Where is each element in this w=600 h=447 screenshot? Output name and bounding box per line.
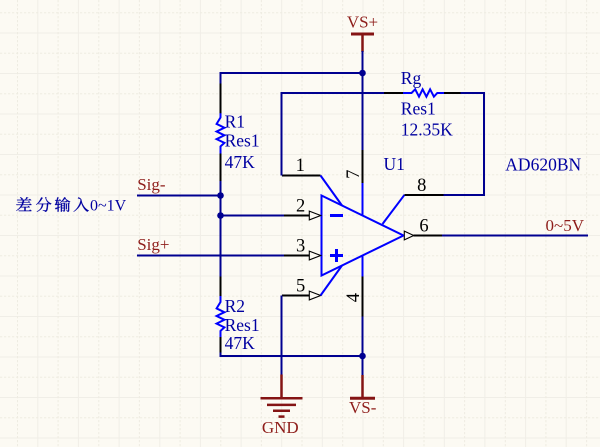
resistor R1 zigzag: [217, 113, 225, 153]
pin 3 arrow: [309, 251, 320, 260]
svg-text:U1: U1: [384, 154, 405, 174]
junction dot pin 2 node: [217, 212, 224, 219]
pin 2 arrow: [309, 211, 320, 220]
svg-text:12.35K: 12.35K: [401, 119, 453, 139]
label 差分输入0~1V: [16, 197, 89, 212]
pin 3 line: [284, 255, 310, 257]
svg-text:AD620BN: AD620BN: [505, 154, 581, 174]
pin 7 line: [362, 150, 364, 183]
svg-text:2: 2: [296, 196, 305, 216]
wire bottom horizontal: [221, 353, 363, 357]
wire left vertical middle (R1 to R2): [220, 181, 222, 277]
op-amp minus mark: [330, 214, 343, 217]
wire VS- vertical: [362, 317, 364, 376]
svg-text:47K: 47K: [225, 333, 256, 353]
svg-text:1: 1: [296, 156, 305, 176]
svg-text:0~5V: 0~5V: [546, 216, 585, 235]
wire output 0~5V: [442, 235, 588, 237]
pin 1 line: [282, 175, 321, 177]
wire Sig+ horizontal to pin 3: [137, 255, 285, 257]
resistor R1 leads: [220, 84, 222, 114]
op-amp plus mark: [330, 249, 343, 262]
pin 4 connector segment: [362, 256, 364, 277]
wire pin 5 to ground: [281, 296, 283, 376]
svg-text:R1: R1: [225, 111, 245, 131]
svg-text:Rg: Rg: [401, 68, 422, 88]
resistor Rg zigzag: [403, 89, 444, 96]
power symbol VS-: [349, 375, 377, 417]
svg-text:GND: GND: [262, 418, 299, 437]
junction dot VS- node: [359, 353, 366, 360]
svg-text:Sig+: Sig+: [137, 235, 169, 254]
svg-text:Res1: Res1: [225, 315, 260, 335]
power symbol VS+: [347, 12, 378, 52]
ground symbol GND: [261, 375, 303, 438]
wire Rg right to pin 8: [444, 93, 485, 195]
svg-text:4: 4: [344, 293, 364, 302]
wire top horizontal R1 to VS+: [221, 72, 363, 74]
svg-text:Res1: Res1: [401, 99, 436, 119]
svg-text:8: 8: [417, 176, 426, 196]
pin 8 connector diagonal: [383, 195, 405, 224]
pin 6 line: [414, 235, 443, 237]
resistor Rg leads: [384, 92, 404, 94]
pin 1 connector diagonal: [321, 176, 343, 206]
junction dot VS+ node: [359, 70, 366, 77]
wire Sig- horizontal: [137, 195, 221, 197]
svg-text:VS-: VS-: [349, 398, 377, 417]
svg-text:47K: 47K: [225, 152, 256, 172]
pin 4 line: [362, 277, 364, 317]
svg-text:R2: R2: [225, 296, 245, 316]
pin 7 connector segment: [362, 183, 364, 215]
pin 5 arrow: [309, 291, 320, 300]
svg-text:7: 7: [344, 170, 364, 179]
pin 2 line: [284, 215, 310, 217]
junction dot Sig- node: [217, 192, 224, 199]
svg-text:Res1: Res1: [225, 130, 260, 150]
wire left vertical top (to R1): [220, 72, 222, 84]
svg-text:3: 3: [296, 236, 305, 256]
svg-text:5: 5: [296, 276, 305, 296]
pin 8 line: [405, 194, 444, 196]
pin 5 connector diagonal: [321, 266, 343, 296]
wire to pin 2: [221, 215, 285, 217]
svg-text:6: 6: [419, 216, 428, 236]
svg-text:VS+: VS+: [347, 12, 378, 31]
wire VS+ vertical to pin 7: [362, 51, 364, 150]
resistor R2 leads: [220, 277, 222, 297]
resistor R2 zigzag: [217, 296, 225, 337]
svg-text:0~1V: 0~1V: [90, 197, 127, 214]
svg-text:Sig-: Sig-: [137, 175, 166, 194]
op-amp U1 triangle: [322, 196, 404, 276]
pin 6 arrow: [404, 231, 413, 240]
pin 5 line: [282, 295, 310, 297]
wire pin1 to Rg left: [282, 93, 385, 176]
